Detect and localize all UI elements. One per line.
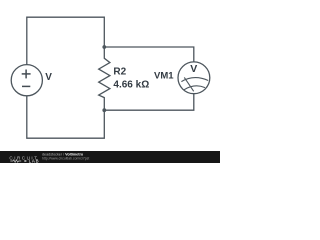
junction node top bbox=[102, 45, 106, 49]
junction node bottom bbox=[102, 108, 106, 112]
wire lower right from voltmeter bbox=[104, 94, 194, 111]
voltage source V circle bbox=[11, 65, 42, 96]
wire bottom bbox=[27, 96, 105, 138]
voltmeter gauge arcs bbox=[181, 77, 208, 91]
voltmeter needle bbox=[184, 77, 193, 91]
voltage source plus sign bbox=[22, 73, 31, 75]
resistor R2 zigzag bbox=[99, 47, 110, 110]
svg-text:http://www.circuitlab.com/c/7p: http://www.circuitlab.com/c/7pst bbox=[42, 157, 89, 161]
CircuitLab logo bbox=[9, 156, 39, 164]
voltmeter VM1 circle bbox=[178, 62, 210, 94]
wire top bbox=[27, 17, 105, 64]
wire upper right to voltmeter bbox=[104, 47, 194, 62]
svg-text:LAB: LAB bbox=[29, 159, 40, 164]
watermark bar bbox=[0, 151, 220, 163]
voltage source minus sign bbox=[22, 85, 30, 87]
